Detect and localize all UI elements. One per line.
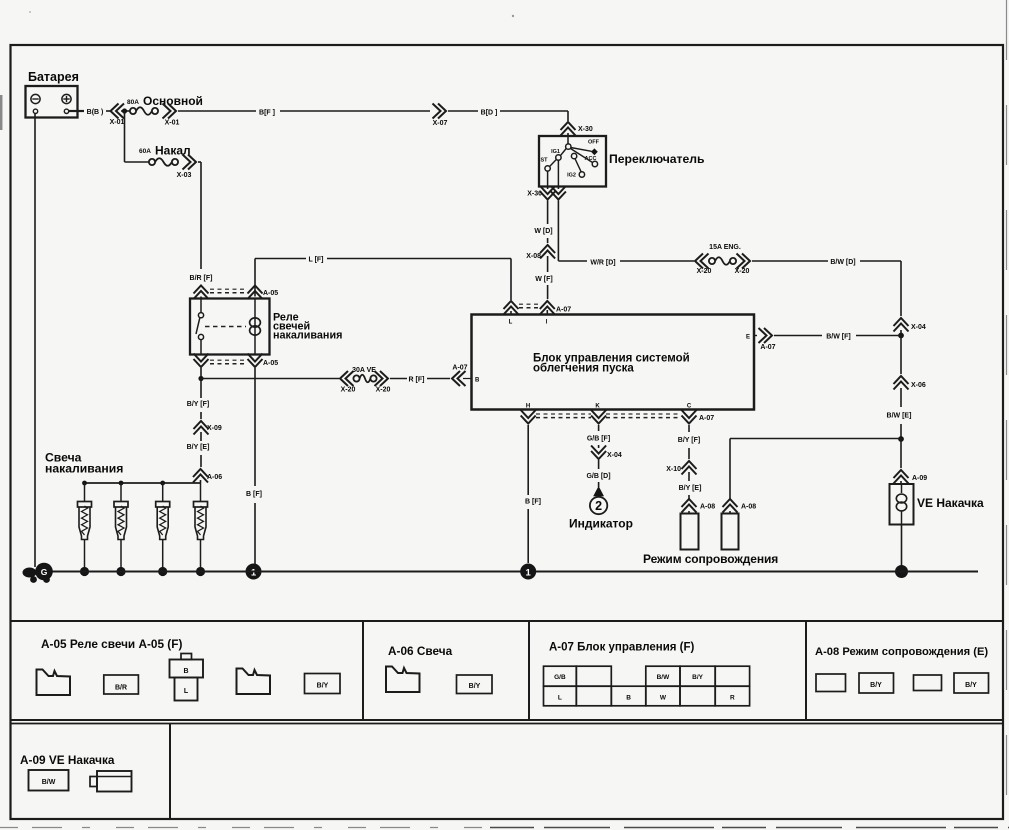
svg-text:A-08: A-08 xyxy=(741,504,756,511)
connector A-07 pin B xyxy=(452,371,460,386)
connector A-07 bottom of control unit xyxy=(521,416,536,424)
svg-text:Основной: Основной xyxy=(143,94,203,108)
wire B[D] xyxy=(448,110,478,112)
node junction below X-01 xyxy=(122,108,127,113)
svg-text:X-20: X-20 xyxy=(376,387,391,394)
connector X-10 xyxy=(682,461,697,469)
legend A-08 terminal 3 xyxy=(914,675,942,691)
splice 1 left xyxy=(246,564,262,580)
svg-text:ST: ST xyxy=(540,158,548,164)
glow plug top bus xyxy=(85,482,201,484)
wire B/Y[F] pin C xyxy=(688,425,690,432)
control unit Блок управления системой облегчения пуска xyxy=(472,315,755,410)
svg-text:X-30: X-30 xyxy=(578,126,593,133)
legend A-09 terminal B/W xyxy=(29,770,69,791)
indicator arrow xyxy=(593,486,604,496)
glow plug 4 xyxy=(200,483,202,502)
svg-text:Режим сопровождения: Режим сопровождения xyxy=(643,552,778,566)
svg-text:E: E xyxy=(746,335,750,341)
svg-text:B/Y: B/Y xyxy=(965,682,977,689)
svg-text:X-01: X-01 xyxy=(110,119,125,126)
svg-text:B/W: B/W xyxy=(657,674,671,681)
wire B[F] xyxy=(178,110,256,112)
scan noise right edge xyxy=(1006,0,1008,830)
wire L[F] xyxy=(254,259,256,297)
connector X-30 top xyxy=(561,122,576,130)
svg-text:L: L xyxy=(184,688,189,695)
connector A-07 pin E xyxy=(754,335,757,337)
svg-text:B/Y [E]: B/Y [E] xyxy=(679,485,702,492)
svg-text:X-10: X-10 xyxy=(666,466,681,473)
wire G/B[F] xyxy=(598,425,600,431)
svg-text:K: K xyxy=(595,404,600,410)
connector A-06 xyxy=(193,469,208,477)
svg-text:А-07 Блок управления (F): А-07 Блок управления (F) xyxy=(549,642,695,654)
svg-text:B/Y [F]: B/Y [F] xyxy=(187,401,209,408)
svg-text:А-08 Режим сопровождения (Е): А-08 Режим сопровождения (Е) xyxy=(815,646,988,658)
ground bus wire xyxy=(50,571,978,573)
wire to right mode switch xyxy=(729,439,731,500)
wire W[F] xyxy=(547,256,549,272)
node ground dot plug 4 xyxy=(196,567,205,576)
wire VE pump to ground xyxy=(901,525,903,567)
svg-text:W: W xyxy=(660,695,667,702)
connector X-09 xyxy=(194,421,209,429)
svg-text:A-05: A-05 xyxy=(263,360,278,367)
connector X-01 right xyxy=(168,104,176,119)
svg-text:X-20: X-20 xyxy=(735,268,750,275)
connector X-07 xyxy=(438,104,446,119)
wire R[F] xyxy=(390,378,407,380)
ground symbol G xyxy=(23,568,37,578)
legend separator lines xyxy=(11,620,1004,622)
connector X-20 left of VE fuse xyxy=(340,371,348,386)
wire B[F] pin H to ground xyxy=(527,425,529,495)
svg-text:B: B xyxy=(475,378,480,384)
svg-text:B/Y: B/Y xyxy=(692,674,704,681)
legend A-08 terminal 1 xyxy=(816,674,846,692)
svg-text:G/B [F]: G/B [F] xyxy=(587,436,610,443)
legend A-06 terminal B/Y xyxy=(457,675,493,694)
wire battery negative to ground xyxy=(34,114,36,568)
connector X-04 right branch xyxy=(894,318,909,326)
svg-text:X-20: X-20 xyxy=(697,268,712,275)
connector A-08 right xyxy=(723,499,738,507)
node B/W junction 1 xyxy=(898,333,904,339)
svg-text:2: 2 xyxy=(595,499,602,513)
svg-text:W [D]: W [D] xyxy=(534,228,552,235)
svg-text:X-04: X-04 xyxy=(911,324,926,331)
svg-text:R: R xyxy=(730,695,735,702)
connector X-01 left xyxy=(111,104,119,119)
svg-text:B/W [E]: B/W [E] xyxy=(887,413,912,420)
connector A-07 top of control unit xyxy=(504,301,519,309)
wire W[D] xyxy=(547,201,549,225)
svg-text:B/W [F]: B/W [F] xyxy=(826,334,851,341)
svg-text:A-07: A-07 xyxy=(699,415,714,422)
legend A-06 connector xyxy=(386,667,420,693)
node B/W junction 2 xyxy=(898,436,904,442)
svg-text:накаливания: накаливания xyxy=(273,330,342,342)
svg-text:X-30: X-30 xyxy=(527,191,542,198)
node ground dot plug 1 xyxy=(80,567,89,576)
wire B/Y[F] xyxy=(200,379,202,399)
connector X-04 indicator branch xyxy=(591,451,606,459)
wire B/W[E] xyxy=(900,388,902,407)
svg-text:Индикатор: Индикатор xyxy=(569,517,633,531)
wire B(B) xyxy=(69,110,84,112)
svg-text:A-07: A-07 xyxy=(452,365,467,372)
svg-text:А-09 VE Накачка: А-09 VE Накачка xyxy=(20,753,115,767)
svg-text:80A: 80A xyxy=(127,99,139,106)
svg-text:X-09: X-09 xyxy=(207,425,222,432)
node ground dot VE xyxy=(895,565,908,578)
svg-text:B/W [D]: B/W [D] xyxy=(830,259,855,266)
svg-text:R [F]: R [F] xyxy=(409,377,425,384)
indicator lamp 2 Индикатор xyxy=(590,497,607,514)
svg-text:X-20: X-20 xyxy=(341,387,356,394)
connector X-20 right of ENG fuse xyxy=(742,254,750,269)
svg-text:L: L xyxy=(558,695,562,702)
svg-text:B: B xyxy=(183,668,188,675)
svg-text:X-06: X-06 xyxy=(911,382,926,389)
svg-text:A-07: A-07 xyxy=(556,307,571,314)
relay Реле свечей накаливания xyxy=(190,299,270,355)
connector X-06 xyxy=(894,376,909,384)
svg-text:OFF: OFF xyxy=(588,140,600,146)
svg-text:X-01: X-01 xyxy=(165,120,180,127)
svg-text:B(B ): B(B ) xyxy=(87,109,104,116)
wire to 60A fuse xyxy=(124,111,126,162)
svg-text:B[D ]: B[D ] xyxy=(481,110,498,117)
wire G/B[D] xyxy=(598,460,600,469)
svg-text:B/Y [E]: B/Y [E] xyxy=(187,444,210,451)
mode switch left box xyxy=(681,514,699,550)
svg-text:A-05: A-05 xyxy=(263,290,278,297)
svg-text:B/Y [F]: B/Y [F] xyxy=(678,437,700,444)
svg-text:15A ENG.: 15A ENG. xyxy=(709,244,741,251)
svg-text:1: 1 xyxy=(251,567,257,578)
svg-text:IG1: IG1 xyxy=(551,149,560,155)
svg-text:A-07: A-07 xyxy=(760,344,775,351)
svg-text:B [F]: B [F] xyxy=(525,499,541,506)
connector A-08 left xyxy=(682,499,697,507)
legend box A-09 xyxy=(169,724,171,820)
svg-text:B/Y: B/Y xyxy=(469,683,481,690)
wire relay to splice xyxy=(200,368,202,376)
svg-text:G/B [D]: G/B [D] xyxy=(586,473,610,480)
wire B[F] coil to ground xyxy=(254,368,256,486)
svg-text:B/Y: B/Y xyxy=(317,683,329,690)
splice 1 right xyxy=(520,564,536,580)
svg-text:накаливания: накаливания xyxy=(45,462,123,476)
legend A-05 terminal B/R xyxy=(104,675,139,694)
svg-text:Переключатель: Переключатель xyxy=(609,152,705,166)
scan noise specks xyxy=(0,95,2,130)
legend A-08 terminal B/Y 2 xyxy=(859,673,894,693)
svg-text:B/R [F]: B/R [F] xyxy=(190,275,213,282)
legend box A-05 xyxy=(362,621,364,720)
svg-text:А-06 Свеча: А-06 Свеча xyxy=(388,644,453,658)
connector X-08 xyxy=(540,245,555,253)
legend A-05 connector 1 xyxy=(37,670,71,696)
legend A-08 terminal B/Y 4 xyxy=(954,673,989,693)
legend box A-06 xyxy=(528,621,530,720)
svg-text:L: L xyxy=(509,320,513,326)
glow plug 1 xyxy=(84,483,86,502)
wire B/W[F] xyxy=(774,335,822,337)
svg-text:B[F ]: B[F ] xyxy=(259,110,275,117)
svg-text:Накал: Накал xyxy=(155,144,191,158)
connector X-20 left of ENG fuse xyxy=(695,254,703,269)
svg-text:B [F]: B [F] xyxy=(246,491,262,498)
svg-text:G/B: G/B xyxy=(554,674,566,681)
legend A-09 connector xyxy=(97,771,132,792)
svg-text:C: C xyxy=(687,404,692,410)
wire W/R[D] xyxy=(557,201,559,262)
svg-text:B: B xyxy=(626,695,631,702)
wire B/W[D] xyxy=(752,260,828,262)
connector A-05 top xyxy=(194,286,209,294)
VE pump coil VE Накачка xyxy=(890,484,914,525)
ignition switch Переключатель xyxy=(539,136,606,187)
svg-text:B/Y: B/Y xyxy=(870,682,882,689)
svg-text:60A: 60A xyxy=(139,148,151,155)
svg-text:A-09: A-09 xyxy=(912,475,927,482)
legend A-05 connector B L xyxy=(181,654,192,660)
svg-text:G: G xyxy=(41,567,48,577)
svg-text:А-05 Реле свечи А-05 (F): А-05 Реле свечи А-05 (F) xyxy=(41,637,182,651)
wire B/Y[E] xyxy=(200,432,202,441)
legend box A-07 xyxy=(805,621,807,720)
svg-text:A-06: A-06 xyxy=(207,474,222,481)
svg-text:L [F]: L [F] xyxy=(308,257,323,264)
legend A-05 connector 2 xyxy=(237,669,271,695)
legend A-05 terminal B/Y xyxy=(305,674,341,694)
svg-text:B/W: B/W xyxy=(42,779,56,786)
svg-text:X-03: X-03 xyxy=(177,172,192,179)
svg-text:B/R: B/R xyxy=(115,685,127,692)
node relay junction xyxy=(198,376,203,381)
svg-text:30A VE: 30A VE xyxy=(352,367,376,374)
svg-text:1: 1 xyxy=(526,567,532,578)
connector X-03 xyxy=(188,155,196,170)
wire relay junction to fuse xyxy=(201,378,339,380)
svg-text:W/R [D]: W/R [D] xyxy=(590,260,615,267)
mode switch right box xyxy=(722,514,739,550)
node ground dot plug 3 xyxy=(158,567,167,576)
connector X-20 right of VE fuse xyxy=(380,371,388,386)
legend A-07 pin grid xyxy=(544,666,577,686)
svg-text:W [F]: W [F] xyxy=(535,276,553,283)
wire B/Y[E] mode switch xyxy=(688,472,690,481)
svg-text:VE Накачка: VE Накачка xyxy=(917,496,984,510)
svg-text:облегчения пуска: облегчения пуска xyxy=(533,363,634,375)
node ground dot plug 2 xyxy=(116,567,125,576)
svg-text:A-08: A-08 xyxy=(700,504,715,511)
wire B/R[F] xyxy=(200,162,202,269)
svg-text:H: H xyxy=(526,404,530,410)
scan noise bottom line xyxy=(0,827,490,829)
glow plug 2 xyxy=(120,483,122,502)
connector A-09 xyxy=(894,470,909,478)
glow plug 3 xyxy=(162,483,164,502)
svg-text:X-08: X-08 xyxy=(526,253,541,260)
svg-text:X-04: X-04 xyxy=(607,452,622,459)
svg-text:X-07: X-07 xyxy=(433,120,448,127)
svg-text:Батарея: Батарея xyxy=(28,70,79,84)
svg-text:IG2: IG2 xyxy=(567,173,576,179)
connector A-05 bottom xyxy=(194,359,209,367)
